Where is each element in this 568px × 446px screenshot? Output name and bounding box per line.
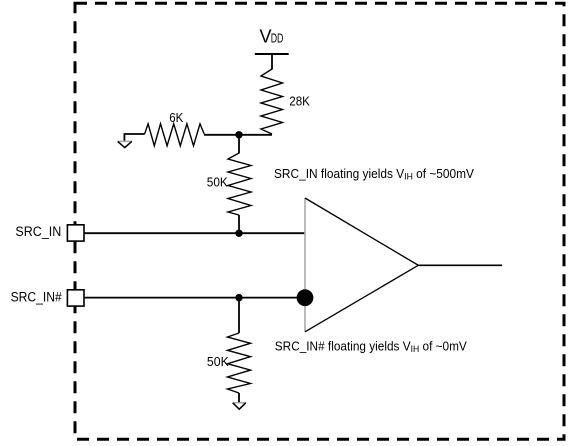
resistor 28K bbox=[261, 69, 283, 134]
resistor 50K (upper) bbox=[228, 153, 251, 215]
ground (left) bbox=[118, 141, 132, 147]
svg-text:28K: 28K bbox=[289, 93, 310, 108]
svg-text:SRC_IN#: SRC_IN# bbox=[11, 290, 63, 305]
resistor 6K bbox=[145, 124, 205, 146]
svg-text:6K: 6K bbox=[169, 110, 183, 125]
comparator U1 bbox=[305, 198, 418, 332]
port pad SRC_IN# bbox=[67, 290, 84, 306]
wire SRC_IN# to comparator - input bbox=[84, 297, 305, 299]
svg-text:SRC_IN# floating yields VIH of: SRC_IN# floating yields VIH of ~0mV bbox=[275, 338, 467, 355]
wire VDD bar to R 28K bbox=[271, 54, 273, 70]
resistor 50K (lower) bbox=[228, 333, 251, 393]
VDD power rail bar bbox=[255, 53, 289, 55]
port pad SRC_IN bbox=[67, 225, 84, 241]
wire SRC_IN# junction down to R 50K (lower) bbox=[238, 298, 240, 333]
wire 6K left end to ground bbox=[124, 134, 144, 141]
svg-text:DD: DD bbox=[271, 31, 284, 46]
wire node A down to R 50K (upper) bbox=[238, 135, 240, 154]
svg-text:SRC_IN floating yields VIH of: SRC_IN floating yields VIH of ~500mV bbox=[274, 166, 474, 183]
wire R 50K (lower) to ground bbox=[238, 393, 240, 403]
wire SRC_IN to comparator + input bbox=[84, 232, 305, 234]
ground (bottom) bbox=[233, 403, 246, 409]
svg-text:50K: 50K bbox=[207, 354, 229, 369]
wire comparator output bbox=[418, 264, 502, 266]
node dot at comparator - input bbox=[297, 289, 314, 306]
wire R 50K (upper) to SRC_IN line bbox=[238, 215, 240, 233]
svg-text:SRC_IN: SRC_IN bbox=[15, 224, 61, 239]
node junction at node A bbox=[235, 131, 242, 138]
wire node A horizontal (6K right end to 28K bottom) bbox=[204, 134, 272, 136]
svg-text:50K: 50K bbox=[207, 174, 228, 189]
node junction on SRC_IN# wire bbox=[235, 294, 242, 301]
node junction on SRC_IN wire bbox=[235, 230, 242, 237]
